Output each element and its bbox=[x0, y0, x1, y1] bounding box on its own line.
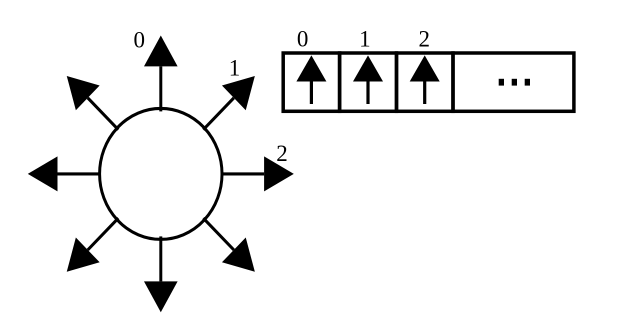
ellipsis dot 3 bbox=[525, 79, 530, 86]
cell 1 up arrow bbox=[353, 55, 383, 104]
svg-text:2: 2 bbox=[276, 141, 288, 166]
svg-text:0: 0 bbox=[297, 26, 309, 51]
arrow S bbox=[144, 236, 178, 312]
arrow NW bbox=[55, 64, 130, 142]
svg-text:0: 0 bbox=[133, 27, 145, 52]
svg-text:1: 1 bbox=[359, 26, 371, 51]
node circle bbox=[100, 108, 222, 239]
cell 2 box bbox=[397, 53, 454, 111]
arrow N (action 0) bbox=[144, 36, 178, 112]
ellipsis dot 1 bbox=[499, 79, 504, 86]
cell 0 box bbox=[283, 53, 339, 111]
ellipsis box bbox=[453, 53, 574, 111]
cell 1 box bbox=[340, 53, 397, 111]
cell 0 up arrow bbox=[296, 55, 326, 104]
arrow E (action 2) bbox=[221, 156, 294, 191]
svg-text:2: 2 bbox=[418, 26, 430, 51]
arrow NE (action 1) bbox=[191, 64, 266, 142]
arrow SW bbox=[55, 206, 130, 284]
svg-text:1: 1 bbox=[229, 55, 241, 80]
arrow SE bbox=[191, 206, 266, 284]
ellipsis dot 2 bbox=[512, 79, 517, 86]
cell 2 up arrow bbox=[410, 55, 440, 104]
arrow W bbox=[28, 156, 101, 191]
